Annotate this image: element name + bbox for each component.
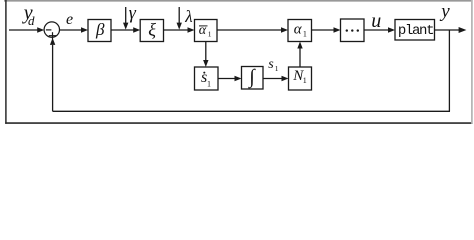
frame top edge (gray, cropped) — [4, 0, 473, 2]
wire: s-dot block to integrator — [218, 78, 235, 80]
svg-text:α: α — [199, 23, 207, 38]
block s-dot-1 — [195, 67, 219, 90]
gamma input arrow — [125, 7, 127, 24]
svg-text:y: y — [439, 1, 450, 22]
minus sign inside junction — [46, 29, 52, 31]
svg-text:1: 1 — [303, 30, 307, 39]
svg-text:λ: λ — [184, 7, 192, 26]
wire: N1 up to alpha-1 — [299, 48, 301, 67]
frame right edge (gray, cropped) — [471, 0, 473, 124]
svg-text:1: 1 — [275, 64, 279, 73]
block alpha-1 — [288, 20, 312, 42]
wire: input y_d to summing junction — [9, 29, 39, 31]
svg-text:1: 1 — [208, 29, 212, 38]
plus sign inside junction — [49, 35, 57, 37]
block plant — [395, 20, 435, 41]
block N1 — [289, 67, 312, 90]
svg-text:ξ: ξ — [148, 19, 156, 39]
svg-text:β: β — [95, 20, 105, 39]
wire: junction to beta block — [60, 29, 83, 31]
wire: plant to output arrow — [435, 29, 460, 31]
wire: feedback rise to summing junction — [52, 45, 54, 112]
wire: beta to xi — [111, 29, 134, 31]
wire: xi to alpha-bar-1 — [164, 29, 189, 31]
block xi — [140, 20, 163, 42]
svg-text:d: d — [28, 13, 35, 28]
svg-text:γ: γ — [129, 3, 137, 23]
wire: alpha-bar-1 down to s-dot block — [205, 42, 207, 62]
lambda input arrow — [178, 7, 180, 24]
svg-text:s: s — [268, 57, 274, 72]
summing junction circle — [44, 22, 59, 37]
wire: integrator to N1 — [263, 78, 282, 80]
svg-text:plant: plant — [398, 23, 433, 39]
svg-text:1: 1 — [207, 79, 211, 88]
block beta — [88, 20, 111, 42]
wire: dots block to plant — [364, 29, 389, 31]
block dots (...) — [341, 19, 365, 42]
svg-text:e: e — [66, 11, 73, 28]
wire: feedback drop at junction x=450 — [448, 30, 450, 111]
svg-text:u: u — [371, 10, 381, 32]
svg-text:1: 1 — [303, 76, 307, 85]
frame bottom edge — [5, 122, 472, 124]
block integrator — [242, 67, 264, 90]
block alpha-bar-1 — [195, 20, 218, 42]
svg-text:α: α — [294, 22, 303, 38]
wire: alpha-bar-1 to alpha-1 — [217, 29, 282, 31]
wire: feedback bottom horizontal — [53, 110, 450, 112]
wire: alpha-1 to dots block — [312, 29, 335, 31]
frame left edge — [5, 0, 7, 124]
